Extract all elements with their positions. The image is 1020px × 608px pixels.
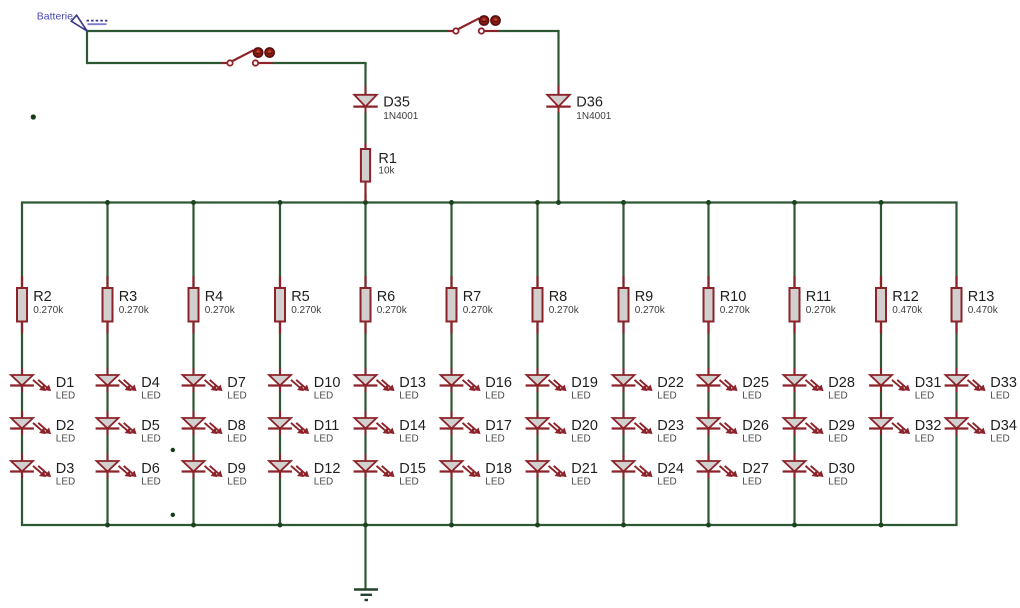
svg-text:D20: D20: [571, 418, 598, 434]
svg-text:D34: D34: [990, 418, 1017, 434]
svg-text:D36: D36: [576, 95, 603, 111]
svg-text:LED: LED: [828, 390, 847, 401]
svg-text:D4: D4: [141, 375, 160, 391]
svg-text:R5: R5: [291, 289, 310, 305]
svg-text:0.270k: 0.270k: [33, 305, 64, 316]
svg-text:D1: D1: [56, 375, 75, 391]
svg-text:D33: D33: [990, 375, 1017, 391]
svg-text:0.270k: 0.270k: [720, 305, 751, 316]
svg-text:LED: LED: [141, 476, 160, 487]
svg-text:D17: D17: [485, 418, 512, 434]
svg-text:LED: LED: [828, 433, 847, 444]
svg-text:R10: R10: [720, 289, 747, 305]
svg-text:D26: D26: [742, 418, 769, 434]
svg-text:Batterie: Batterie: [37, 10, 73, 22]
svg-text:0.470k: 0.470k: [968, 305, 999, 316]
svg-text:D19: D19: [571, 375, 598, 391]
svg-text:LED: LED: [227, 433, 246, 444]
svg-text:D27: D27: [742, 461, 769, 477]
svg-text:D32: D32: [915, 418, 942, 434]
svg-text:D8: D8: [227, 418, 246, 434]
svg-text:R2: R2: [33, 289, 52, 305]
svg-text:LED: LED: [571, 476, 590, 487]
svg-text:LED: LED: [571, 390, 590, 401]
svg-text:R13: R13: [968, 289, 995, 305]
svg-text:0.270k: 0.270k: [463, 305, 494, 316]
svg-text:D23: D23: [657, 418, 684, 434]
svg-text:R7: R7: [463, 289, 482, 305]
svg-text:D29: D29: [828, 418, 855, 434]
svg-text:0.270k: 0.270k: [806, 305, 837, 316]
svg-text:R9: R9: [635, 289, 654, 305]
svg-text:D6: D6: [141, 461, 160, 477]
svg-text:LED: LED: [742, 476, 761, 487]
svg-text:LED: LED: [915, 433, 934, 444]
svg-text:0.270k: 0.270k: [205, 305, 236, 316]
svg-text:LED: LED: [915, 390, 934, 401]
svg-text:D21: D21: [571, 461, 598, 477]
svg-text:D35: D35: [383, 95, 410, 111]
svg-text:D15: D15: [399, 461, 426, 477]
svg-text:LED: LED: [742, 433, 761, 444]
svg-text:D14: D14: [399, 418, 426, 434]
svg-text:0.470k: 0.470k: [892, 305, 923, 316]
svg-text:LED: LED: [485, 390, 504, 401]
svg-text:LED: LED: [657, 433, 676, 444]
svg-text:0.270k: 0.270k: [119, 305, 150, 316]
svg-text:D9: D9: [227, 461, 246, 477]
svg-text:D10: D10: [314, 375, 341, 391]
svg-text:D3: D3: [56, 461, 75, 477]
svg-text:LED: LED: [657, 390, 676, 401]
svg-text:LED: LED: [314, 390, 333, 401]
svg-text:10k: 10k: [378, 165, 395, 176]
svg-text:LED: LED: [742, 390, 761, 401]
svg-text:R8: R8: [549, 289, 568, 305]
svg-text:D25: D25: [742, 375, 769, 391]
svg-text:LED: LED: [314, 433, 333, 444]
svg-text:LED: LED: [399, 433, 418, 444]
svg-text:D30: D30: [828, 461, 855, 477]
svg-text:LED: LED: [56, 390, 75, 401]
svg-text:LED: LED: [141, 433, 160, 444]
svg-text:D28: D28: [828, 375, 855, 391]
svg-text:LED: LED: [485, 433, 504, 444]
svg-text:LED: LED: [571, 433, 590, 444]
svg-text:LED: LED: [485, 476, 504, 487]
svg-text:LED: LED: [828, 476, 847, 487]
svg-text:D18: D18: [485, 461, 512, 477]
svg-text:0.270k: 0.270k: [291, 305, 322, 316]
svg-text:D16: D16: [485, 375, 512, 391]
svg-text:LED: LED: [657, 476, 676, 487]
svg-text:D13: D13: [399, 375, 426, 391]
svg-text:LED: LED: [990, 390, 1009, 401]
svg-text:1N4001: 1N4001: [576, 111, 611, 122]
svg-text:LED: LED: [141, 390, 160, 401]
svg-text:D2: D2: [56, 418, 75, 434]
svg-text:LED: LED: [399, 390, 418, 401]
svg-text:D12: D12: [314, 461, 341, 477]
svg-text:0.270k: 0.270k: [549, 305, 580, 316]
svg-text:0.270k: 0.270k: [377, 305, 408, 316]
svg-text:R12: R12: [892, 289, 919, 305]
svg-text:D31: D31: [915, 375, 942, 391]
svg-text:LED: LED: [56, 476, 75, 487]
svg-text:LED: LED: [56, 433, 75, 444]
svg-text:R3: R3: [119, 289, 138, 305]
svg-text:LED: LED: [399, 476, 418, 487]
svg-text:R6: R6: [377, 289, 396, 305]
svg-text:D22: D22: [657, 375, 684, 391]
svg-text:LED: LED: [227, 476, 246, 487]
svg-text:LED: LED: [990, 433, 1009, 444]
svg-text:D24: D24: [657, 461, 684, 477]
svg-text:1N4001: 1N4001: [383, 111, 418, 122]
svg-text:D7: D7: [227, 375, 246, 391]
svg-text:D11: D11: [314, 418, 340, 434]
svg-text:R11: R11: [806, 289, 832, 305]
svg-text:LED: LED: [227, 390, 246, 401]
svg-text:0.270k: 0.270k: [635, 305, 666, 316]
svg-text:R4: R4: [205, 289, 224, 305]
svg-text:LED: LED: [314, 476, 333, 487]
svg-text:D5: D5: [141, 418, 160, 434]
